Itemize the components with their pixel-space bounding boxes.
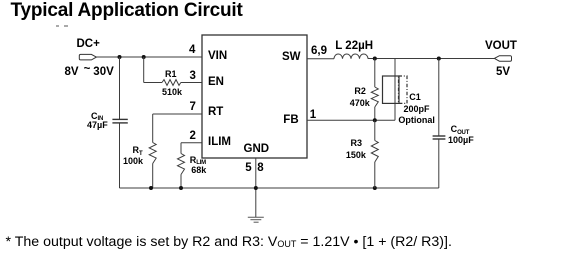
wire bottom rail bbox=[120, 187, 439, 189]
pin number 5 bbox=[245, 163, 251, 175]
stray mark 2 bbox=[64, 25, 68, 27]
pin label FB bbox=[283, 115, 298, 127]
label C1 bbox=[409, 93, 421, 102]
value 200pF bbox=[404, 105, 430, 114]
footnote formula bbox=[6, 235, 452, 251]
node junction dot (COUT branch) bbox=[437, 57, 441, 61]
wire RT vertical lower bbox=[152, 164, 154, 189]
value 470k bbox=[350, 99, 370, 108]
node rail dot GND bbox=[254, 186, 258, 190]
value 100uF bbox=[448, 136, 474, 145]
wire RILIM vertical lower bbox=[180, 175, 182, 189]
wire VIN input (DC+ to pin 4) bbox=[96, 56, 202, 58]
value 68k bbox=[191, 166, 206, 175]
resistor R2 zigzag bbox=[371, 87, 378, 107]
label R2 bbox=[354, 87, 366, 96]
connector DC+ tag bbox=[79, 54, 96, 60]
connector VOUT tag bbox=[494, 56, 511, 62]
node junction dot (R2/C1 branch) bbox=[373, 57, 377, 61]
resistor RT zigzag bbox=[149, 143, 156, 164]
pin number 7 bbox=[190, 102, 196, 114]
pin number 6,9 bbox=[311, 46, 327, 58]
label COUT bbox=[451, 125, 470, 134]
wire ILIM pin 2 horizontal bbox=[181, 142, 202, 144]
value 510k bbox=[162, 88, 182, 97]
node rail dot R3 bbox=[373, 186, 377, 190]
pin label GND bbox=[244, 144, 270, 156]
value 150k bbox=[346, 151, 366, 160]
label R3 bbox=[351, 139, 363, 148]
ground symbol bbox=[248, 217, 264, 222]
stray mark 1 bbox=[56, 25, 59, 27]
wire COUT upper bbox=[438, 59, 440, 136]
pin number 4 bbox=[189, 45, 195, 57]
capacitor CIN bbox=[112, 119, 127, 123]
node rail dot RILIM bbox=[179, 186, 183, 190]
capacitor C1 optional dash-dot box bbox=[399, 76, 408, 103]
node junction dot (EN branch) bbox=[142, 55, 146, 59]
label DC+ bbox=[77, 39, 100, 51]
label L 22uH bbox=[335, 41, 373, 53]
wire RILIM vertical upper bbox=[180, 143, 182, 154]
wire R2 branch upper bbox=[374, 59, 376, 88]
resistor R3 zigzag bbox=[371, 141, 378, 163]
wire R3 lower bbox=[374, 162, 376, 188]
pin number 3 bbox=[190, 71, 196, 83]
wire ground stem bbox=[255, 188, 257, 217]
capacitor COUT bbox=[433, 136, 446, 139]
wire EN branch vertical bbox=[143, 57, 145, 83]
node junction dot FB bbox=[373, 118, 377, 122]
resistor RILIM zigzag bbox=[178, 154, 185, 175]
wire EN branch to R1 bbox=[144, 82, 162, 84]
node junction dot (CIN branch) bbox=[118, 55, 122, 59]
label 5V bbox=[496, 67, 510, 79]
pin number 1 bbox=[310, 110, 316, 122]
wire SW to inductor bbox=[307, 58, 334, 60]
wire inductor to VOUT bbox=[368, 58, 495, 60]
wire COUT lower bbox=[438, 140, 440, 189]
wire RT pin 7 horizontal bbox=[153, 113, 202, 115]
wire R3 upper bbox=[374, 120, 376, 140]
resistor R1 zigzag bbox=[162, 80, 181, 86]
label 8V ~ 30V bbox=[65, 67, 114, 79]
wire GND pin 5 8 vertical bbox=[255, 158, 257, 188]
label VOUT bbox=[485, 41, 517, 53]
label RILIM bbox=[190, 156, 206, 165]
pin label SW bbox=[282, 52, 301, 64]
wire R1 to pin 3 bbox=[181, 82, 202, 84]
pin label RT bbox=[208, 107, 223, 119]
wire R2 branch lower bbox=[374, 107, 376, 120]
wire C1 branch vertical bbox=[394, 59, 396, 121]
pin number 2 bbox=[190, 131, 196, 143]
label R1 bbox=[165, 70, 177, 79]
title bbox=[11, 1, 243, 22]
value 100k bbox=[123, 157, 143, 166]
IC U1 body bbox=[202, 35, 307, 158]
pin label EN bbox=[208, 77, 224, 89]
wire RT vertical upper bbox=[152, 114, 154, 143]
capacitor C1 solid box bbox=[383, 76, 400, 103]
label CIN bbox=[91, 112, 103, 121]
value 47uF bbox=[87, 121, 108, 130]
label RT bbox=[133, 146, 143, 155]
pin number 8 bbox=[257, 163, 263, 175]
wire FB pin 1 bbox=[307, 119, 395, 121]
inductor L coil bbox=[334, 54, 368, 59]
wire CIN branch lower bbox=[119, 124, 121, 189]
pin label ILIM bbox=[208, 137, 231, 149]
label Optional bbox=[398, 116, 435, 125]
pin label VIN bbox=[208, 51, 227, 63]
wire CIN branch upper bbox=[119, 57, 121, 119]
node rail dot RT bbox=[149, 186, 153, 190]
